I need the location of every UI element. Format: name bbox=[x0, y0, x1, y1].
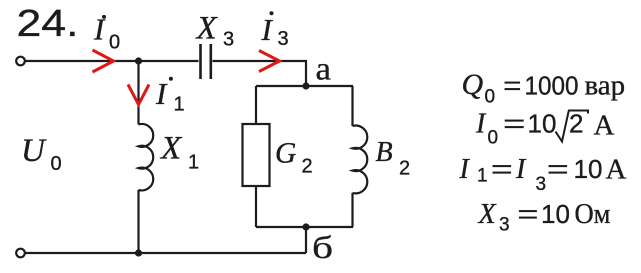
formula line 1: Q0 = 1000 вар bbox=[462, 68, 626, 108]
svg-text:I: I bbox=[155, 76, 168, 111]
svg-text:вар: вар bbox=[585, 70, 626, 102]
svg-text:24.: 24. bbox=[17, 3, 79, 45]
svg-text:б: б bbox=[312, 229, 333, 265]
wire: X1 branch top lead bbox=[137, 61, 139, 125]
label conductance G2 bbox=[275, 138, 313, 178]
svg-text:2: 2 bbox=[399, 158, 410, 180]
svg-text:=: = bbox=[503, 71, 521, 101]
svg-text:А: А bbox=[594, 110, 615, 142]
terminal (top input) bbox=[16, 57, 25, 66]
svg-text:I: I bbox=[459, 154, 471, 185]
label problem number 24. bbox=[17, 3, 79, 45]
label susceptance B2 bbox=[376, 137, 411, 180]
svg-text:Ом: Ом bbox=[575, 199, 611, 230]
wire: G2 branch top lead bbox=[255, 86, 257, 124]
svg-text:I: I bbox=[261, 12, 274, 47]
wire: node б stub to bottom rail bbox=[305, 227, 307, 253]
svg-text:3: 3 bbox=[278, 28, 289, 50]
current arrow I3 (red) bbox=[259, 51, 280, 72]
svg-text:X: X bbox=[195, 11, 219, 47]
resistor G2 (conductance box) bbox=[243, 124, 270, 186]
svg-text:=: = bbox=[503, 109, 525, 139]
svg-text:2: 2 bbox=[302, 156, 313, 178]
svg-text:0: 0 bbox=[488, 128, 499, 149]
label node a bbox=[316, 52, 332, 88]
wire: parallel section top rail bbox=[256, 85, 353, 87]
label node б bbox=[312, 229, 333, 265]
svg-text:1: 1 bbox=[188, 152, 199, 174]
node б junction dot bbox=[302, 223, 309, 230]
svg-text:1: 1 bbox=[174, 94, 185, 116]
label current I3 with overdot and subscript bbox=[261, 11, 289, 50]
svg-text:10: 10 bbox=[541, 199, 570, 229]
terminal (bottom input) bbox=[16, 249, 25, 258]
svg-text:=: = bbox=[491, 154, 513, 184]
svg-text:0: 0 bbox=[51, 153, 62, 175]
svg-text:I: I bbox=[475, 109, 487, 140]
label source voltage U0 bbox=[21, 133, 62, 175]
node a junction dot bbox=[302, 82, 309, 89]
svg-text:G: G bbox=[275, 138, 296, 170]
svg-text:X: X bbox=[159, 131, 183, 167]
label inductor value X1 bbox=[159, 131, 199, 174]
svg-text:U: U bbox=[21, 133, 47, 169]
svg-text:X: X bbox=[478, 199, 497, 230]
svg-text:3: 3 bbox=[499, 215, 510, 236]
svg-text:а: а bbox=[316, 52, 332, 88]
capacitor C (X3) plates bbox=[201, 44, 211, 79]
svg-text:=: = bbox=[547, 154, 569, 184]
current arrow I0 (red) bbox=[93, 50, 114, 72]
wire: X1 branch bottom lead bbox=[137, 190, 139, 253]
formula line 3: I1 = I3 = 10 A bbox=[459, 154, 627, 196]
junction node (bottom of X1 branch) bbox=[135, 249, 142, 256]
wire: G2 branch bottom lead bbox=[255, 186, 257, 227]
svg-text:=: = bbox=[517, 199, 538, 229]
svg-text:Q: Q bbox=[462, 68, 484, 101]
svg-text:10: 10 bbox=[574, 154, 603, 184]
wire: B2 branch top lead bbox=[351, 86, 353, 126]
junction node (top of X1 branch) bbox=[135, 57, 142, 64]
label current I0 with overdot and subscript bbox=[93, 12, 120, 54]
formula line 4: X3 = 10 Ом bbox=[478, 199, 611, 236]
svg-text:А: А bbox=[606, 154, 627, 186]
label current I1 with overdot and subscript bbox=[155, 76, 185, 116]
formula line 2: I0 = 10 sqrt(2) A bbox=[475, 109, 615, 149]
wire: capacitor X3 to top-right corner, down to node a bbox=[213, 61, 307, 84]
inductor L (X1) bbox=[139, 124, 154, 190]
svg-text:1000: 1000 bbox=[525, 71, 579, 101]
current arrow I1 (red, down) bbox=[128, 85, 149, 105]
inductor L (B2) bbox=[353, 126, 368, 194]
svg-text:I: I bbox=[515, 154, 527, 185]
wire: bottom rail bbox=[25, 252, 306, 254]
svg-text:0: 0 bbox=[485, 87, 496, 108]
svg-text:1: 1 bbox=[477, 166, 488, 187]
svg-text:0: 0 bbox=[109, 32, 120, 54]
svg-text:3: 3 bbox=[223, 29, 234, 51]
svg-text:2: 2 bbox=[569, 109, 583, 139]
svg-text:B: B bbox=[376, 137, 393, 168]
wire: parallel section bottom rail bbox=[256, 226, 353, 228]
label capacitor value X3 bbox=[195, 11, 235, 51]
wire: top rail, terminal to capacitor X3 bbox=[25, 60, 199, 62]
wire: B2 branch bottom lead bbox=[351, 193, 353, 227]
svg-text:10: 10 bbox=[528, 109, 557, 139]
svg-text:3: 3 bbox=[536, 174, 547, 195]
